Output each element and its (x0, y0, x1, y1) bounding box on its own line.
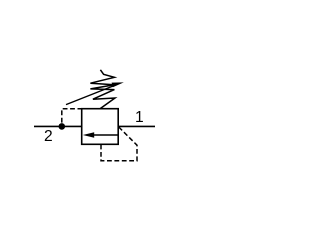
wire: port 2 line (left) (34, 125, 83, 127)
flow arrow inside box (points left) (94, 134, 119, 136)
valve body box (82, 109, 119, 145)
adjustment arrow across spring (66, 86, 113, 105)
spring (zigzag) above box (90, 70, 115, 109)
wire: pilot dashed loop from port 1 to box bottom (101, 127, 137, 161)
wire: pilot dashed line from junction to box top-left corner (62, 109, 82, 123)
svg-text:1: 1 (135, 109, 144, 126)
svg-text:2: 2 (44, 128, 53, 145)
wire: port 1 line (right) (118, 125, 155, 127)
node: junction dot on port 2 line (59, 123, 66, 130)
